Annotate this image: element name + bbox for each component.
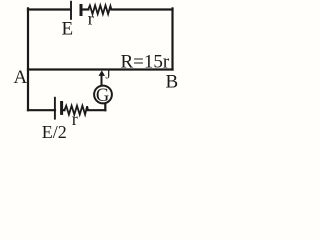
- svg-text:B: B: [166, 72, 179, 93]
- svg-text:J: J: [105, 66, 110, 81]
- svg-text:E/2: E/2: [42, 122, 67, 142]
- svg-text:A: A: [14, 67, 28, 88]
- svg-text:R=15r: R=15r: [121, 52, 170, 73]
- svg-text:r: r: [88, 9, 94, 29]
- svg-text:r: r: [72, 109, 78, 129]
- svg-text:G: G: [96, 86, 109, 106]
- svg-text:E: E: [62, 19, 74, 40]
